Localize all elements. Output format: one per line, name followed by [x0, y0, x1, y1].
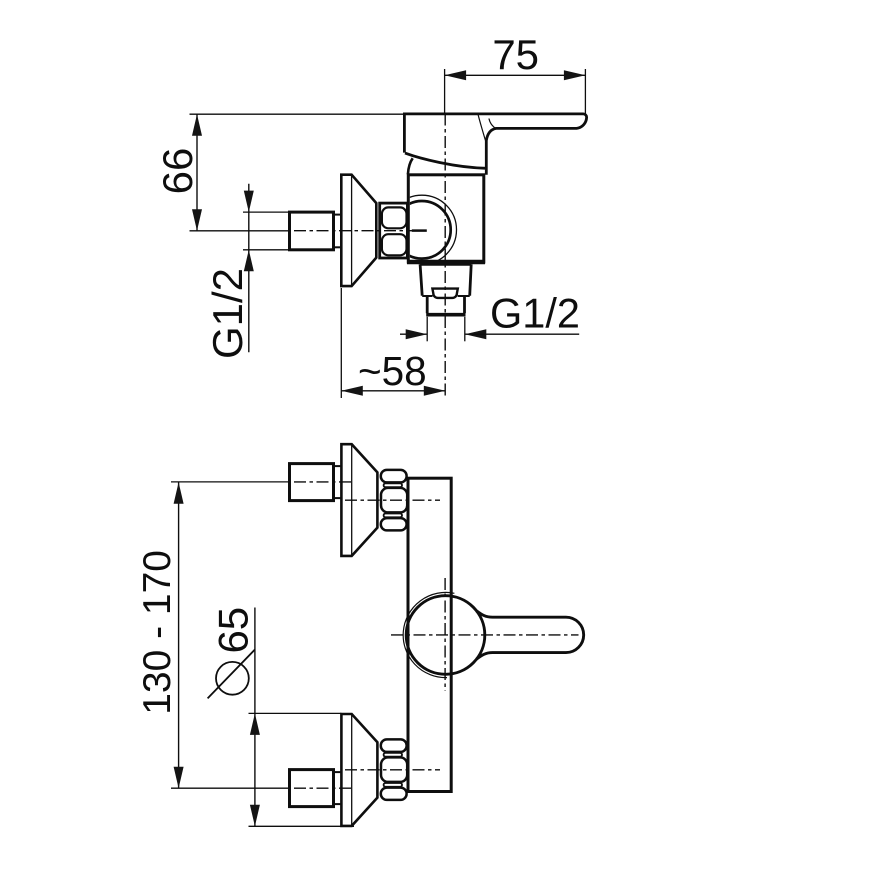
ball center tick: [412, 229, 427, 232]
centerline horizontal (top view): [294, 230, 428, 232]
centerline vertical (top view): [444, 114, 446, 397]
body neck arc (top view): [408, 158, 413, 174]
dim 130-170: dimension line: [174, 482, 184, 788]
bottom pipe neck: [334, 772, 342, 804]
dim ~58: extension line: [340, 288, 342, 398]
centerline top faucet axis: [345, 499, 440, 501]
dim G1/2 bottom: extension lines: [427, 317, 465, 342]
wall flange escutcheon (top view): [341, 175, 376, 286]
handle lever (front view): [477, 611, 584, 659]
svg-text:~58: ~58: [358, 348, 427, 394]
bottom wall flange (front view): [341, 714, 377, 826]
handle lever (top view): [404, 114, 586, 175]
dim G1/2 left: extension lines: [243, 211, 290, 213]
centerline bottom wall axis: [294, 787, 352, 789]
outlet thread end band: [426, 313, 465, 317]
dim 130-170: extension lines: [171, 482, 290, 788]
dim 75: dimension line with arrows: [445, 70, 586, 80]
dim 66: bottom extension line: [190, 230, 290, 232]
inlet pipe (top view): [290, 212, 334, 250]
mixer body (top view): [408, 175, 484, 262]
knob outer thin arc: [403, 592, 454, 677]
top hex nut (front view): [381, 470, 407, 530]
hex connector nut (top view): [380, 203, 408, 258]
mixer body thick bottom edge: [407, 260, 485, 265]
svg-text:66: 66: [154, 148, 201, 195]
bottom hex nut (front view): [381, 739, 407, 799]
svg-text:G1/2: G1/2: [490, 290, 580, 337]
diameter symbol: [208, 650, 255, 699]
pipe neck (top view): [334, 215, 342, 248]
centerline knob horizontal: [391, 634, 579, 636]
handle shoulder highlight curves: [478, 114, 496, 140]
dim G1/2 bottom: dimension arrows and leader: [400, 329, 579, 339]
svg-text:G1/2: G1/2: [204, 268, 251, 359]
svg-text:65: 65: [209, 607, 256, 654]
dim 66: vertical dimension line: [192, 114, 202, 231]
dim diam65: dimension line with arrows: [250, 608, 260, 827]
dim G1/2 left: dimension line with arrows: [244, 184, 254, 352]
top wall flange (front view): [341, 444, 377, 556]
svg-text:75: 75: [492, 31, 539, 78]
handle knob circle (front view): [406, 596, 485, 675]
outlet upper section (top view): [420, 264, 471, 295]
dim 75: extension lines: [445, 69, 586, 114]
centerline bottom faucet axis: [345, 769, 440, 771]
top inlet pipe (front view): [290, 464, 334, 501]
centerline top wall axis: [294, 481, 352, 483]
dim diam65: extension lines: [249, 713, 355, 826]
svg-text:130 - 170: 130 - 170: [136, 550, 179, 715]
outlet step shoulders: [422, 295, 470, 297]
faucet body bar (front view): [408, 478, 451, 791]
outlet thread cylinder: [427, 296, 464, 313]
cartridge ball (top view): [387, 195, 456, 264]
centerline knob vertical: [444, 578, 446, 691]
top pipe neck: [334, 466, 342, 498]
bottom inlet pipe (front view): [290, 770, 334, 807]
outlet nose cap: [432, 289, 457, 298]
dim 66: top extension line: [190, 113, 405, 115]
dim ~58: dimension line with arrows: [341, 386, 445, 396]
